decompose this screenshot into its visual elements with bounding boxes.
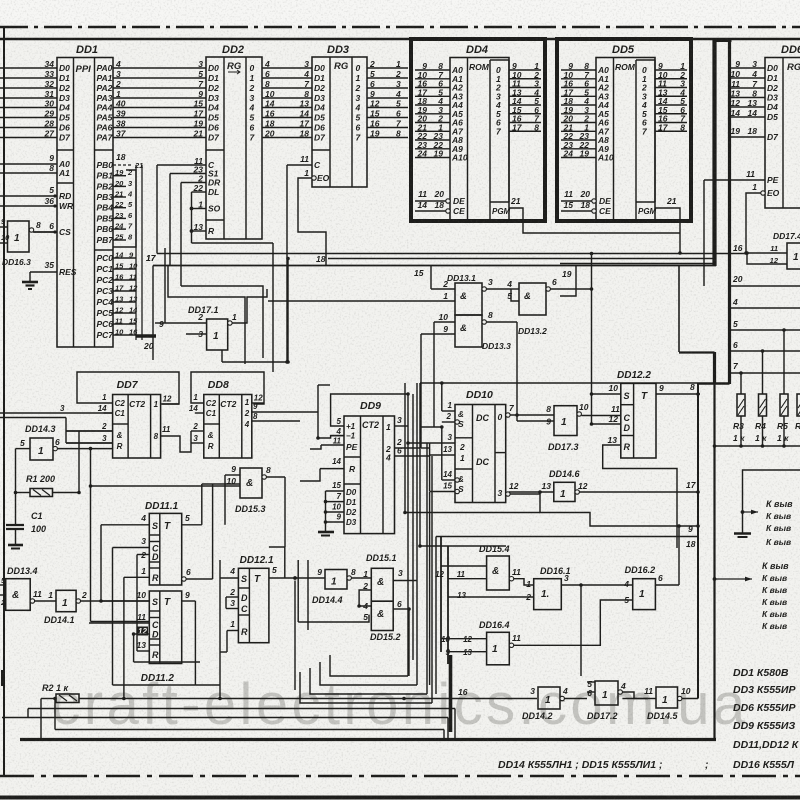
gate DD15.1 — [359, 553, 417, 606]
ground for to-pin group 1 — [734, 534, 751, 538]
border bottom edge — [0, 796, 800, 800]
wire DD11 S chain — [99, 525, 103, 603]
wire DD9 R — [300, 469, 320, 481]
wire DD9 -1 — [316, 385, 344, 440]
wire bundle verticals — [405, 383, 506, 703]
wire nested corners bottom center — [300, 655, 432, 703]
wire DD11.2 D down — [132, 632, 200, 662]
resistor R6 1k — [795, 373, 800, 446]
wire net 5 tap — [730, 319, 800, 332]
wire DD9 +1 loop — [331, 392, 410, 426]
border bottom dash-dot line — [0, 775, 800, 778]
wire left bus of DD15.4 group — [435, 537, 472, 664]
wire DD13 input verticals — [421, 322, 434, 448]
wire DD8 outputs — [252, 402, 318, 421]
border left tick — [1, 670, 4, 686]
IC DD6 register RG — [730, 44, 800, 208]
gate DD13.3 — [421, 310, 517, 351]
wire DD9 PE — [310, 445, 321, 449]
IC DD11.1 flip-flop — [101, 501, 213, 585]
wire DD14.5 output up — [696, 392, 700, 698]
gate DD14.5 — [644, 686, 698, 721]
IC DD2 register RG — [193, 44, 312, 239]
thick bus right middle path — [679, 266, 730, 740]
gate DD15.3 — [90, 464, 285, 547]
gate DD17.2 — [587, 679, 648, 721]
gate DD16.2 — [514, 524, 681, 645]
wire net 17 — [146, 253, 716, 360]
wire net 7 tap — [730, 361, 800, 375]
border left line — [3, 28, 5, 775]
border top frame line — [0, 38, 800, 40]
resistor R3 1k — [733, 373, 745, 446]
wire DD6 EO — [744, 193, 761, 255]
IC DD12.2 flip-flop — [592, 370, 701, 458]
wire bottom long rails — [2, 697, 455, 740]
IC DD10 decoder DC — [430, 389, 554, 503]
wire DD11.1 R — [122, 577, 126, 700]
gate DD14.6 — [509, 469, 698, 502]
IC DD4 ROM — [411, 39, 545, 221]
wire net 4 tap — [730, 297, 800, 308]
IC DD12.1 flip-flop — [220, 555, 295, 643]
resistor R1 200 — [14, 449, 81, 525]
bus collector for port C — [136, 165, 157, 351]
gate DD16.3 — [0, 217, 57, 267]
wire to DD7 C1 from edge — [0, 404, 113, 413]
gate DD17.3 — [515, 322, 621, 452]
capacitor C1 100 — [6, 511, 46, 545]
wire DD4 PGM pin 21 — [509, 196, 680, 233]
gate DD13.1 — [268, 273, 511, 315]
wire DD11.1 out5 up — [202, 484, 240, 579]
wire DD10 input verticals — [406, 381, 443, 491]
IC DD11.2 flip-flop — [89, 590, 195, 684]
thick bus right top — [560, 40, 732, 384]
wire DD12.2 R path — [603, 445, 677, 548]
resistor R4 1k — [755, 351, 767, 446]
node to-pin group 1 — [741, 470, 800, 547]
wire DD11.1 D — [136, 555, 138, 652]
wire DD17.1 out to DD8 — [221, 350, 223, 362]
wire DD15.3 input from R1 node — [89, 475, 225, 525]
gate DD14.4 — [293, 567, 371, 605]
wire net 9 lower — [403, 493, 698, 534]
wire DD3 EO enable — [298, 178, 326, 265]
wire net 15 branch — [414, 266, 431, 290]
wire net 20 tap — [730, 274, 800, 286]
wire net 16 bottom — [124, 687, 537, 700]
wire net 16 — [157, 243, 747, 254]
ground near RES — [22, 272, 38, 289]
gate DD15.2 — [298, 599, 411, 676]
wire to DD15.2 pin5 — [298, 560, 308, 630]
wire DD12.1 out5 node — [269, 547, 295, 690]
border bottom thick bus line — [20, 738, 716, 741]
wire long net at y383 — [420, 382, 698, 384]
wires to DD2 control pins — [157, 165, 273, 372]
wire DD11.1 C — [113, 548, 196, 686]
gate DD13.4 — [0, 566, 56, 610]
wire vertical net x591 — [590, 252, 594, 426]
IC DD3 register RG — [300, 44, 408, 187]
IC DD7 counter CT2 — [66, 372, 179, 458]
wire DD7 out11 to DD8 — [161, 425, 191, 452]
wire net 6 tap — [730, 340, 800, 353]
wire net 19 vertical — [560, 266, 576, 297]
gate DD14.2 — [522, 686, 587, 721]
gate DD17.1 — [159, 305, 237, 350]
resistor R2 1k — [41, 683, 124, 740]
resistor common rail — [713, 444, 800, 448]
wire vertical x288 — [222, 257, 290, 364]
IC DD9 counter CT2 — [320, 400, 430, 534]
resistor R5 1k — [777, 330, 789, 446]
gate DD16.4 — [441, 620, 521, 665]
chip list text — [705, 667, 800, 771]
gate DD17.4 — [745, 231, 800, 269]
wire corners above DD17.1 — [168, 266, 263, 365]
node to-pin group 2 — [713, 561, 790, 631]
bottom caption text — [498, 759, 662, 771]
wire DD5 PGM pin 21 — [655, 196, 682, 255]
wire net 18 lower — [436, 537, 698, 550]
ground for DD9 data inputs — [318, 491, 334, 536]
wire DD3 C clock — [285, 165, 312, 364]
wire DD14.3 feedback — [0, 418, 113, 494]
border top dash-dot line — [0, 26, 800, 29]
gate DD14.1 — [44, 590, 149, 625]
IC DD8 counter CT2 — [189, 372, 264, 458]
wire DD17.1 input9 — [155, 248, 165, 323]
gate DD15.4 — [441, 544, 534, 590]
IC DD5 ROM — [557, 39, 691, 221]
wire net 18 — [316, 254, 716, 264]
wire DD12.1 inputs — [220, 560, 227, 652]
gate DD13.2 — [506, 277, 591, 336]
watermark — [51, 672, 748, 737]
wire DD6 PE — [704, 180, 765, 286]
gate DD14.3 — [16, 424, 113, 460]
wire DD17.1 output loop — [232, 289, 267, 323]
gate DD16.1 — [448, 566, 633, 676]
wire DD11.2 out9 — [195, 578, 221, 700]
ground below C1 — [8, 545, 23, 549]
IC DD1 K580 PPI — [0, 44, 206, 347]
wire DD11.2 C from node — [91, 449, 150, 622]
thick bus bottom left — [449, 655, 453, 732]
